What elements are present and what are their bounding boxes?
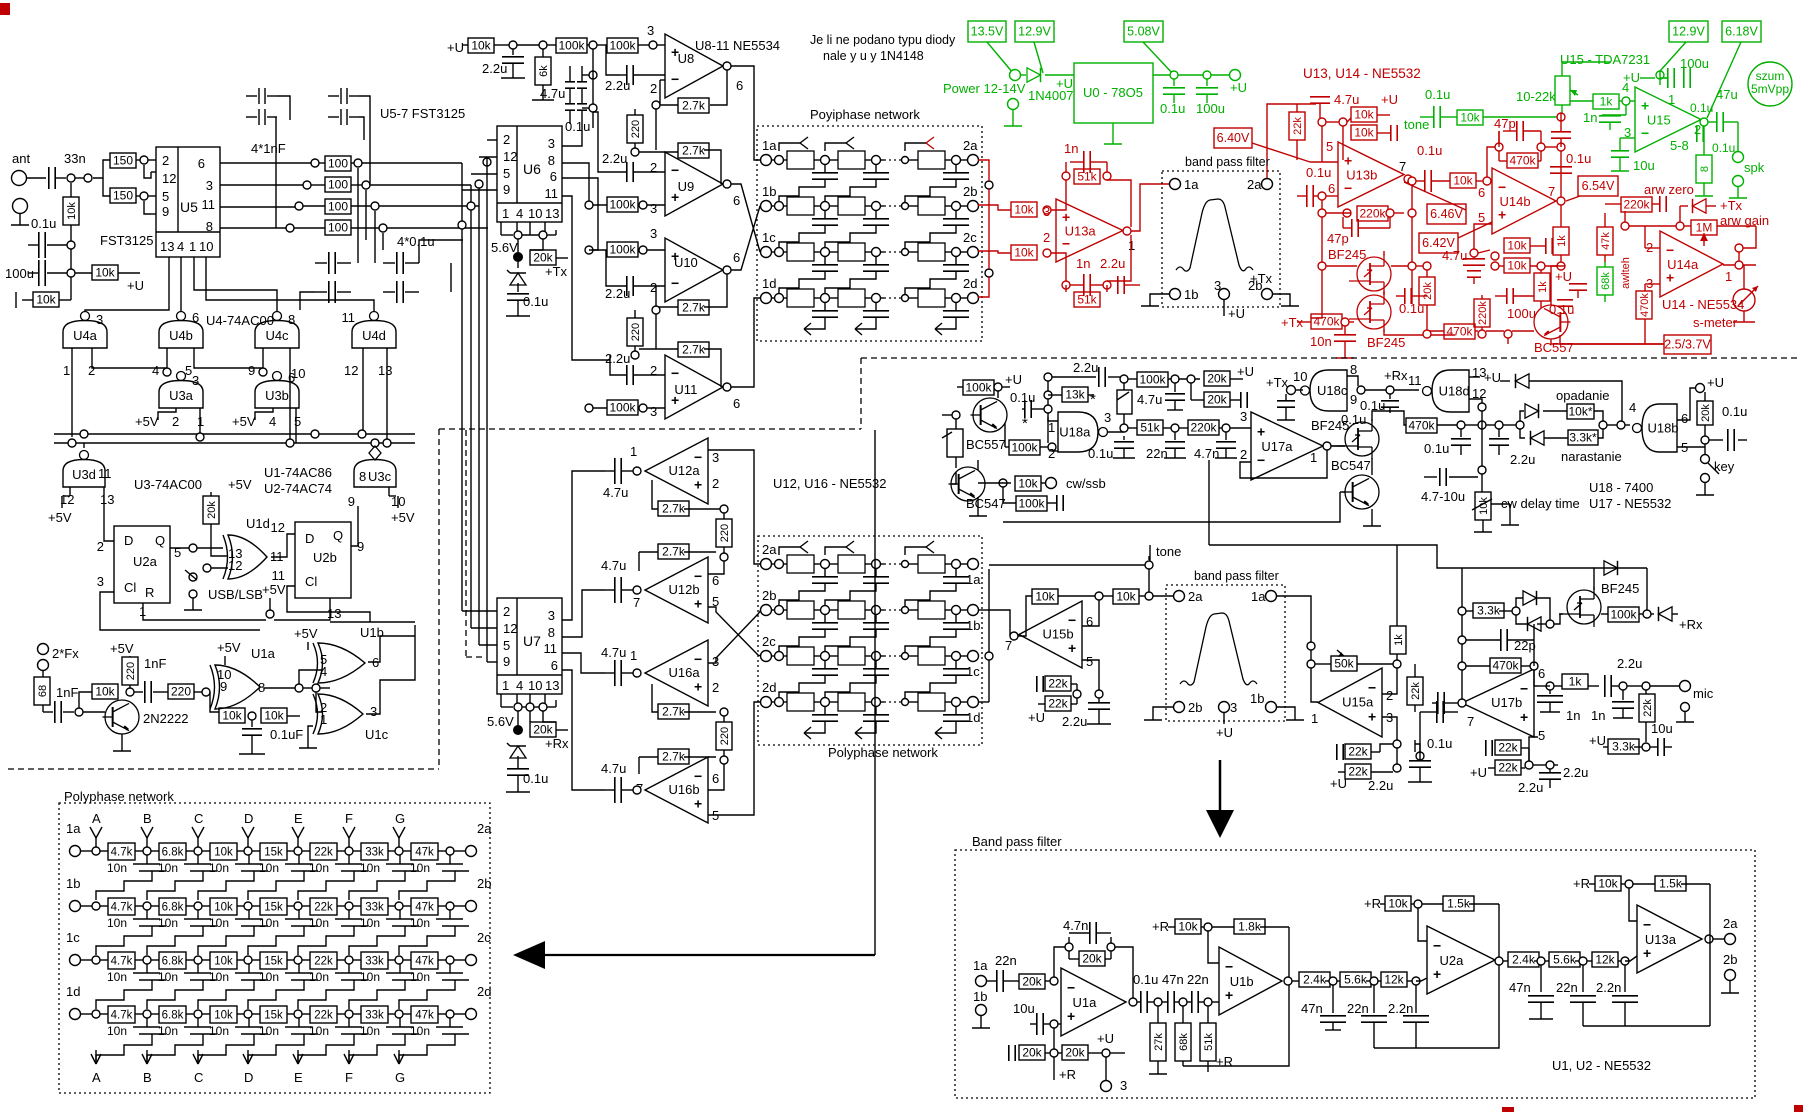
svg-text:*: * (1090, 391, 1096, 408)
resistor 10k U13a minus (1011, 245, 1037, 260)
svg-text:2.7k: 2.7k (682, 301, 706, 315)
svg-text:U10: U10 (674, 255, 698, 270)
svg-text:12k: 12k (1384, 973, 1404, 987)
svg-text:10n: 10n (1310, 334, 1332, 349)
polyphase top row 1d (761, 276, 979, 307)
diode +U top (1500, 374, 1622, 425)
svg-text:10k: 10k (1116, 590, 1136, 604)
wire U18c out to Rx (1365, 389, 1386, 391)
wire U17b apex cap (1432, 692, 1458, 714)
resistor 100k second (597, 38, 649, 53)
node junction (1102, 1049, 1110, 1057)
svg-text:2: 2 (1043, 230, 1050, 245)
capacitor 2.2u U18 (1044, 360, 1124, 391)
resistor 51k vertical (1200, 1006, 1233, 1072)
resistor 100k U9 (589, 197, 665, 212)
node junction (585, 246, 593, 254)
svg-text:U11: U11 (674, 382, 697, 397)
node junction (1483, 177, 1491, 185)
wire U18a inputs (1048, 417, 1058, 451)
svg-text:5: 5 (503, 638, 510, 653)
port +U U18b (1696, 375, 1724, 393)
ground U1c input (299, 726, 317, 748)
svg-text:6.18V: 6.18V (1725, 25, 1758, 39)
wire U2a.Q to U1d (170, 547, 189, 549)
svg-text:150: 150 (113, 189, 133, 203)
svg-text:U2a: U2a (133, 554, 158, 569)
node junction (1557, 113, 1565, 121)
bpf2 response curve (1180, 613, 1257, 685)
svg-text:−: − (671, 275, 679, 291)
polyphase row 1b capacitors 10n (96, 910, 469, 955)
svg-text:Q: Q (333, 528, 343, 543)
svg-text:U3d: U3d (72, 467, 96, 482)
voltage box 13.5V (968, 21, 1006, 42)
svg-text:2b: 2b (963, 184, 977, 199)
U17b output node (1458, 699, 1466, 707)
svg-text:+U: +U (1555, 269, 1572, 284)
resistor 20k vertical U18b (1697, 392, 1713, 425)
node junction (1062, 281, 1070, 289)
U5 pin1 wire to U4c (194, 257, 277, 312)
capacitor 10n (1310, 326, 1356, 358)
svg-text:E: E (294, 811, 303, 826)
svg-text:11: 11 (202, 197, 216, 212)
U9 pins (650, 160, 740, 216)
voltage box 2.5/3.7V (1664, 335, 1711, 354)
svg-text:4: 4 (152, 363, 159, 378)
svg-text:+: + (1344, 153, 1352, 169)
resistor 22k U15b 1 (1037, 676, 1077, 692)
svg-text:13.5V: 13.5V (971, 25, 1004, 39)
bus verticals down to U7 (462, 163, 497, 662)
node junction (720, 756, 728, 764)
svg-text:1: 1 (320, 712, 327, 727)
svg-text:11: 11 (98, 466, 112, 481)
svg-text:47p: 47p (1327, 231, 1349, 246)
svg-text:10n: 10n (158, 1024, 178, 1038)
node junction (1307, 642, 1315, 650)
svg-text:1nF: 1nF (144, 656, 166, 671)
svg-text:Polyphase network: Polyphase network (828, 745, 938, 760)
svg-text:2.2u: 2.2u (605, 351, 630, 366)
U3b pins +5V (232, 408, 301, 443)
transistor BF245 b (1349, 292, 1391, 332)
wire junction down (70, 249, 72, 269)
resistor 220k U18 (1179, 420, 1222, 435)
node junction (295, 684, 303, 692)
svg-text:U1, U2 - NE5532: U1, U2 - NE5532 (1552, 1058, 1651, 1073)
polyphase2 row 2d (761, 680, 981, 725)
svg-text:1a: 1a (762, 138, 777, 153)
wire to 150 resistors (75, 177, 84, 179)
svg-text:100k: 100k (1018, 497, 1045, 511)
node junction (509, 41, 517, 49)
svg-text:7: 7 (1467, 714, 1474, 729)
svg-text:10: 10 (528, 206, 542, 221)
svg-text:BC557: BC557 (966, 437, 1006, 452)
bpf1 response curve (1176, 199, 1253, 271)
dotted box band pass filter 1 (1162, 171, 1280, 307)
svg-text:1b: 1b (1184, 287, 1198, 302)
svg-text:U2-74AC74: U2-74AC74 (264, 481, 332, 496)
svg-text:10n: 10n (259, 861, 279, 875)
op-amp U8 NE5534 (665, 34, 723, 98)
resistor 10k cwssb (978, 476, 1046, 491)
svg-text:10n: 10n (360, 861, 380, 875)
svg-text:U13b: U13b (1346, 168, 1377, 183)
resistor 220 vertical U12 (716, 513, 732, 553)
capacitor 2.2u U11 (605, 351, 665, 385)
wire U2a Cl loop (100, 592, 260, 630)
capacitor 4.7u U16b (601, 761, 633, 803)
wire 10k2 to 20k (1416, 265, 1423, 267)
svg-text:6: 6 (198, 156, 205, 171)
svg-text:U2a: U2a (1440, 953, 1465, 968)
svg-text:10n: 10n (259, 916, 279, 930)
capacitor 4.7u U12a (603, 458, 633, 500)
svg-text:+5V: +5V (135, 414, 159, 429)
node junction (1530, 662, 1538, 670)
svg-text:5: 5 (1086, 654, 1093, 669)
svg-text:51k: 51k (1077, 293, 1097, 307)
output port +U (1230, 70, 1247, 96)
node junction pin12 (203, 564, 211, 572)
svg-text:3: 3 (1104, 410, 1111, 425)
U5 pin10 wire to U4d (206, 257, 374, 312)
svg-text:+R: +R (1573, 876, 1590, 891)
svg-text:12.9V: 12.9V (1672, 25, 1705, 39)
svg-text:Cl: Cl (305, 574, 317, 589)
wire nodes (517, 711, 519, 726)
svg-text:2a: 2a (1247, 177, 1262, 192)
svg-text:1k: 1k (1537, 281, 1549, 293)
node junction (1525, 761, 1533, 769)
node junction row3 (295, 202, 303, 210)
wire BC557 up (997, 391, 999, 398)
resistor 10k green tone (1457, 110, 1557, 125)
svg-text:220k: 220k (1623, 198, 1650, 212)
svg-text:−: − (1520, 680, 1528, 696)
trimmer cap 4.7u (1117, 383, 1162, 424)
wire 220k down (1624, 211, 1626, 222)
svg-text:100: 100 (328, 221, 348, 235)
red caps under pot (1551, 113, 1571, 147)
svg-text:100k: 100k (1011, 441, 1038, 455)
resistor 6k vertical (532, 49, 554, 100)
svg-text:+Tx: +Tx (1720, 198, 1743, 213)
svg-text:100k: 100k (1610, 608, 1637, 622)
gate U18c (1301, 362, 1358, 411)
label +5V U1a (217, 640, 241, 665)
polyphase2 row 2d caps (804, 706, 969, 739)
svg-text:15k: 15k (264, 847, 283, 859)
svg-text:+U: +U (1707, 375, 1724, 390)
svg-text:3: 3 (548, 136, 555, 151)
svg-text:+U: +U (1589, 733, 1606, 748)
svg-text:20k: 20k (1082, 952, 1102, 966)
svg-text:0.1u: 0.1u (1160, 101, 1185, 116)
red wire 470k to U14a (1644, 335, 1646, 344)
svg-text:awlteh: awlteh (1620, 257, 1632, 289)
green tone wire (1404, 87, 1457, 132)
top arrow node F (343, 811, 355, 847)
wire collector up (79, 692, 92, 708)
node junction (1643, 610, 1651, 618)
capacitor 47p U13b (1327, 217, 1390, 246)
capacitor 47n shunt2 (1509, 965, 1554, 1019)
resistor 10k U15b fb (1018, 589, 1095, 636)
svg-text:22n: 22n (1347, 1001, 1369, 1016)
node junction (1120, 375, 1128, 383)
svg-text:1b: 1b (1250, 691, 1264, 706)
resistor 10k U14b (1450, 173, 1483, 188)
svg-text:9: 9 (348, 494, 355, 509)
antenna input ant (12, 151, 31, 186)
svg-text:+: + (1225, 987, 1233, 1003)
U12b output node (633, 586, 641, 594)
wire BC547 right connections (1003, 458, 1381, 526)
resistor pot vertical left (942, 415, 963, 468)
node junction (589, 71, 597, 79)
svg-text:1n: 1n (1076, 256, 1090, 271)
capacitor under 100k (1165, 383, 1185, 410)
svg-text:11: 11 (545, 186, 559, 201)
resistor 100k BF245 (1601, 607, 1643, 622)
capacitor 2.2n shunt1 (1388, 985, 1429, 1048)
svg-text:Power 12-14V: Power 12-14V (943, 81, 1026, 96)
svg-text:2b: 2b (1723, 952, 1737, 967)
svg-text:4: 4 (516, 678, 523, 693)
svg-text:2.2n: 2.2n (1388, 1001, 1413, 1016)
node junction (1043, 206, 1051, 214)
svg-text:22n: 22n (995, 953, 1017, 968)
wire U2a plus (1416, 978, 1427, 981)
U9 output node (723, 180, 731, 188)
input 2*Fx ports (38, 644, 80, 671)
svg-text:1: 1 (1310, 450, 1317, 465)
mic ground stub (1676, 703, 1694, 723)
wire mute horizontal (1209, 545, 1594, 568)
capacitor 2.2n shunt2 (1596, 965, 1638, 1026)
svg-text:10n: 10n (259, 970, 279, 984)
wire zener node (517, 239, 519, 253)
gate U3b (255, 370, 299, 408)
svg-text:U3b: U3b (265, 388, 289, 403)
svg-text:+: + (694, 796, 702, 812)
svg-text:2.2u: 2.2u (1073, 360, 1098, 375)
resistor 470k bottom (1427, 324, 1478, 339)
red corner mark top left (0, 3, 10, 15)
svg-text:6: 6 (1538, 666, 1545, 681)
capacitor 0.1u U13b in (1297, 165, 1331, 207)
capacitor 22n input (987, 953, 1019, 992)
svg-text:1k: 1k (1569, 675, 1583, 689)
wire U12b pin5 cross (708, 607, 761, 656)
svg-text:470k: 470k (1313, 315, 1340, 329)
capacitor 0.1u U14b in (1412, 143, 1450, 192)
svg-text:9: 9 (220, 679, 227, 694)
svg-text:4.7-10u: 4.7-10u (1421, 489, 1465, 504)
capacitor 4.7u U12b (601, 558, 633, 603)
node junction (1386, 209, 1394, 217)
junction dot (513, 252, 523, 262)
svg-text:10k: 10k (1507, 259, 1527, 273)
svg-text:12: 12 (344, 363, 358, 378)
capacitor 0.1u U17b (1420, 701, 1458, 751)
IC U6 (497, 126, 562, 222)
svg-text:0.1u: 0.1u (1722, 404, 1747, 419)
capacitor 0.1u mid (1550, 167, 1572, 173)
svg-text:BC547: BC547 (1331, 458, 1371, 473)
wire U1c out (366, 625, 415, 714)
svg-text:3: 3 (206, 178, 213, 193)
U13a output node (1123, 227, 1131, 235)
wire U18d pin12 (1469, 399, 1482, 403)
port 3 bias (1101, 1057, 1128, 1093)
wire U1b out to right (368, 636, 415, 662)
resistor 470k U17b (1466, 658, 1530, 673)
node junction (1171, 375, 1179, 383)
svg-text:11: 11 (342, 310, 356, 325)
svg-text:3: 3 (1230, 700, 1237, 715)
gate U18d (1423, 365, 1487, 412)
svg-text:0.1u: 0.1u (1341, 412, 1366, 427)
wire U2b Cl wiring (287, 586, 370, 622)
svg-text:2.7k: 2.7k (662, 705, 686, 719)
svg-text:220: 220 (171, 685, 191, 699)
svg-text:33k: 33k (365, 847, 384, 859)
resistor 3.3k U17b (1466, 603, 1512, 618)
resistor 100k U11 (589, 400, 665, 415)
svg-text:0.1u: 0.1u (1427, 736, 1452, 751)
ground input port (11, 199, 56, 232)
dashed separator right top (861, 357, 1797, 359)
wire fb U13a2 right (1709, 884, 1711, 1026)
svg-text:2.4k: 2.4k (1303, 973, 1327, 987)
svg-text:220: 220 (719, 524, 731, 542)
svg-text:0.1u: 0.1u (1690, 101, 1713, 115)
svg-text:band pass filter: band pass filter (1185, 155, 1270, 169)
svg-text:2: 2 (1240, 447, 1247, 462)
svg-text:FST3125: FST3125 (100, 233, 153, 248)
svg-text:7: 7 (1005, 638, 1012, 653)
svg-text:2c: 2c (762, 634, 776, 649)
bpf1 2b wire right (1273, 294, 1290, 300)
node junction (371, 202, 379, 210)
resistor 1.8k U1b fb (1212, 919, 1289, 934)
svg-text:U4c: U4c (265, 328, 289, 343)
leader 6.40V (1252, 143, 1310, 162)
switch USB/LSB (184, 570, 263, 610)
svg-text:U1b: U1b (1230, 974, 1254, 989)
dotted box Band pass filter big (955, 850, 1755, 1098)
svg-text:6.8k: 6.8k (162, 1010, 184, 1022)
op-amp U13a (1043, 199, 1135, 262)
wire U13b out to cap (1407, 181, 1409, 183)
svg-text:470k: 470k (1408, 419, 1435, 433)
svg-text:10k: 10k (1507, 239, 1527, 253)
svg-text:47k: 47k (415, 1010, 434, 1022)
transistor BF245 mid (1559, 581, 1639, 627)
svg-text:10k: 10k (214, 1010, 233, 1022)
svg-text:10k: 10k (95, 266, 115, 280)
port 2a out (1723, 916, 1738, 945)
speaker wire (1729, 122, 1765, 198)
capacitor 0.1u U7 (506, 769, 548, 792)
svg-text:−: − (1643, 916, 1651, 932)
svg-text:100u: 100u (5, 266, 34, 281)
svg-text:1b: 1b (966, 618, 980, 633)
svg-text:8: 8 (1350, 362, 1357, 377)
svg-text:2: 2 (650, 363, 657, 378)
svg-text:470k: 470k (1509, 154, 1536, 168)
svg-text:D: D (305, 531, 314, 546)
svg-text:22n: 22n (1146, 446, 1168, 461)
resistor 220 vertical mid1 (627, 109, 643, 148)
resistor 2.7k U16a (652, 684, 716, 719)
bottom arrow node D (243, 1050, 253, 1085)
svg-text:10n: 10n (410, 970, 430, 984)
wire U12b out to U7 (562, 590, 605, 637)
resistor 1k U17b (1562, 674, 1599, 689)
resistor 10k U14 2 (1499, 258, 1557, 273)
node junction (1423, 330, 1431, 338)
svg-text:+U: +U (1237, 364, 1254, 379)
wire U4a.2 to U4b.4 (92, 363, 167, 368)
wire 10k to minus U13a2 (1629, 888, 1637, 921)
resistor 22k U17b 2 (1488, 760, 1525, 775)
svg-text:220: 220 (719, 727, 731, 745)
svg-text:5: 5 (503, 166, 510, 181)
svg-text:+U: +U (1028, 710, 1045, 725)
wire bpf out to U17b (1419, 712, 1421, 760)
resistor 100 row1 (325, 156, 351, 171)
zener diode U7 (507, 743, 526, 768)
svg-text:3: 3 (192, 373, 199, 388)
node junction (585, 201, 593, 209)
wire U12a out to U7 (562, 471, 605, 620)
svg-text:470k: 470k (1639, 293, 1651, 317)
svg-text:3: 3 (96, 312, 103, 327)
wire to U18b (1607, 400, 1636, 429)
svg-text:U9: U9 (678, 179, 695, 194)
leader 6.46V (1404, 182, 1466, 210)
node junction (1065, 943, 1073, 951)
wire BC547 left (952, 460, 987, 516)
transistor BC557 red (1534, 305, 1574, 355)
svg-text:10-22k: 10-22k (1516, 89, 1556, 104)
svg-text:6: 6 (712, 573, 719, 588)
series chain caps (1133, 972, 1209, 1013)
resistor 51k U18 (1128, 420, 1171, 435)
capacitor 47n series (1162, 991, 1179, 1013)
bpf1 ports (1170, 177, 1273, 302)
wire diodes to BF245 gate (1554, 614, 1563, 624)
svg-text:0.1u: 0.1u (1417, 143, 1442, 158)
svg-text:4.7k: 4.7k (111, 902, 133, 914)
svg-text:U4b: U4b (169, 328, 193, 343)
svg-text:tone: tone (1404, 117, 1429, 132)
svg-text:6: 6 (1478, 185, 1485, 200)
svg-text:12k: 12k (1595, 953, 1615, 967)
svg-text:+Rx: +Rx (545, 736, 569, 751)
U8 pins (650, 78, 743, 96)
svg-text:13: 13 (100, 492, 114, 507)
node junction (1044, 391, 1052, 399)
label +U bpf2 (1216, 713, 1233, 740)
resistor 3.3k mic (1589, 733, 1642, 754)
